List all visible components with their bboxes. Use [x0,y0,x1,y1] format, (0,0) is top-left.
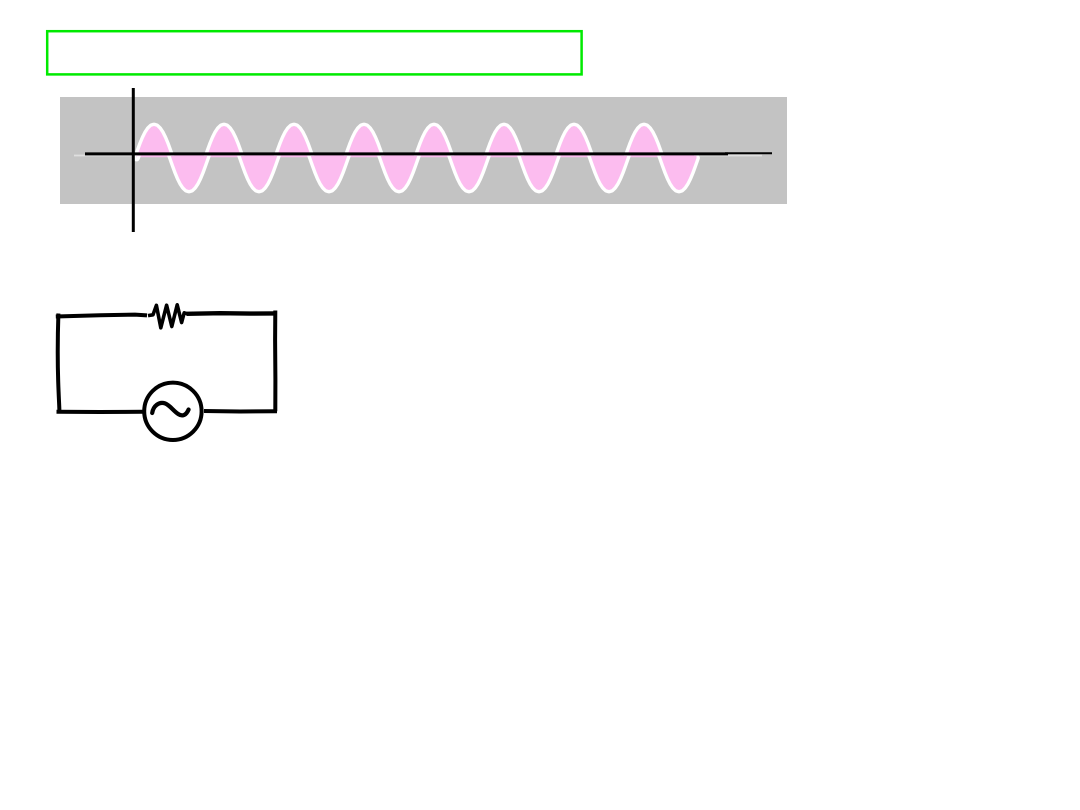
resistor R1 [148,305,188,328]
sine wave baseline strip [137,154,697,157]
x-axis tail [725,152,772,154]
wire bottom-right [204,409,277,414]
faint axis underline [74,155,762,157]
sine wave fill [137,126,697,190]
y-axis [132,88,135,232]
annotation box [47,31,581,74]
wire top-right [187,311,277,316]
wire top-left [56,315,147,317]
wire left [58,314,60,412]
signal panel background [60,97,787,204]
wire right [273,311,277,412]
x-axis [85,152,728,155]
sine wave outline [137,126,697,190]
AC source V1 [144,383,201,440]
wire bottom-left [57,410,144,414]
